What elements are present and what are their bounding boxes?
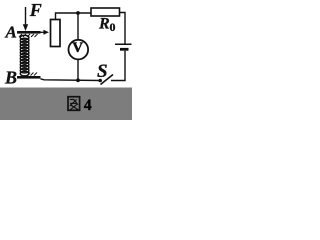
wire: voltmeter down to bottom wire xyxy=(77,60,79,81)
svg-text:4: 4 xyxy=(84,97,92,114)
voltmeter V xyxy=(69,40,89,60)
rheostat box R xyxy=(51,20,61,47)
background xyxy=(0,0,132,120)
battery cell xyxy=(115,44,132,49)
node junction top xyxy=(76,11,80,15)
svg-text:S: S xyxy=(97,61,108,82)
wire: rheostat top up and right to junction xyxy=(56,13,92,20)
plate B xyxy=(17,73,41,79)
caption gray band xyxy=(0,88,132,121)
svg-text:V: V xyxy=(72,40,83,56)
caption glyph 图 xyxy=(68,97,80,111)
switch S lever xyxy=(101,75,114,85)
svg-text:A: A xyxy=(5,23,17,42)
svg-text:F: F xyxy=(29,0,42,20)
wire: junction down to voltmeter xyxy=(77,13,79,40)
wire: R0 right to corner down to battery xyxy=(120,13,126,44)
bottom wire from plate B to switch xyxy=(41,79,101,81)
plate A (slider bar) xyxy=(17,31,41,37)
node at bottom of voltmeter branch xyxy=(76,78,80,82)
wire: battery down to bottom right corner xyxy=(111,51,125,81)
force arrow F xyxy=(23,7,28,31)
slider arrow to rheostat xyxy=(40,30,49,35)
resistor R0 box xyxy=(91,8,120,16)
spring xyxy=(20,35,29,76)
switch contact dot xyxy=(98,79,102,83)
svg-text:B: B xyxy=(4,68,17,88)
svg-text:0: 0 xyxy=(110,20,116,34)
svg-text:R: R xyxy=(98,16,110,33)
